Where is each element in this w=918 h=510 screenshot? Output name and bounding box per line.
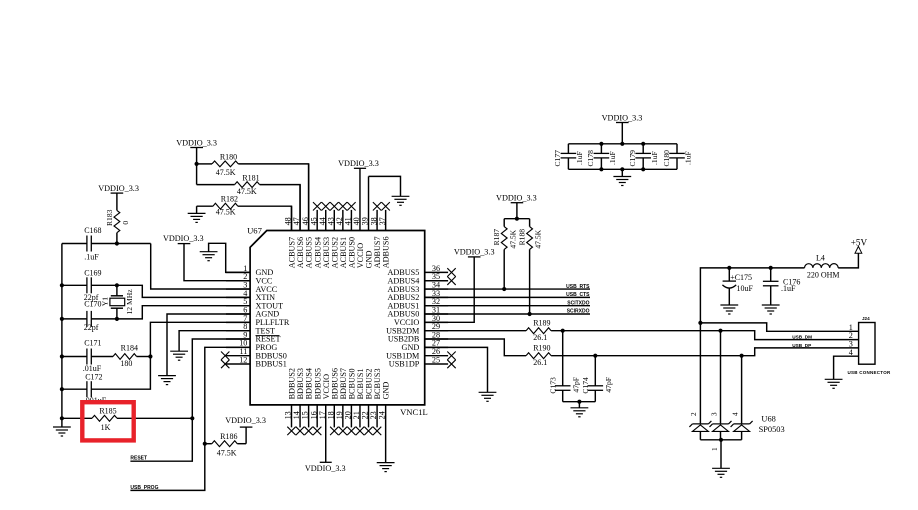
U67 pin 17 VCCIO [318, 374, 331, 462]
svg-text:26.1: 26.1 [533, 333, 547, 342]
ground at TEST [170, 351, 188, 360]
U67 pin 41 ACBUS0 [344, 202, 357, 268]
svg-text:GND: GND [382, 382, 391, 400]
capacitor C175 10uF polarized [722, 268, 753, 305]
svg-text:R182: R182 [221, 194, 238, 203]
svg-text:3: 3 [710, 412, 718, 416]
wire pin1 GND [209, 243, 251, 272]
wire R180 to pin46 [238, 164, 308, 231]
svg-text:USB_CTS: USB_CTS [566, 292, 590, 298]
power VDDIO_3.3 above R180/R181 [176, 139, 217, 148]
ground at C173/C174 [571, 408, 589, 417]
U67 pin 47 ACBUS6 [292, 185, 305, 269]
U67 pin 35 ADBUS4 [387, 272, 455, 285]
U67 pin 38 ADBUS7 [369, 202, 382, 268]
node PROG / R186 [203, 442, 207, 446]
wire net USB_CTS [425, 296, 590, 298]
node cap bank rail junction [641, 142, 645, 146]
power VDDIO_3.3 above R183 [98, 184, 139, 193]
power +5V arrow [855, 246, 862, 253]
svg-text:25: 25 [432, 355, 440, 364]
resistor R185 1K [62, 407, 192, 433]
resistor R180 47.5K [197, 153, 239, 177]
wire pin27 GND to ground [425, 347, 488, 392]
wire net SCITXDO [425, 305, 590, 307]
svg-text:USB1DP: USB1DP [389, 360, 420, 369]
svg-text:C169: C169 [84, 269, 101, 278]
node R184 / PLLFLTR [148, 354, 152, 358]
svg-text:USB_DM: USB_DM [792, 335, 812, 340]
svg-text:47.5K: 47.5K [534, 229, 543, 248]
wire pin29 USB2DM to R189 [425, 330, 526, 332]
wire crystal top to pin4 XTIN [117, 285, 250, 297]
svg-text:U68: U68 [761, 414, 775, 423]
U67 pin 45 ACBUS4 [309, 202, 322, 268]
svg-text:2: 2 [690, 412, 698, 416]
U67 pin 9 RESET [226, 330, 281, 343]
svg-text:VDDIO_3.3: VDDIO_3.3 [338, 159, 379, 168]
resistor R187 47.5K [492, 219, 517, 289]
wire C173/C174 ground rail [563, 401, 596, 403]
wire pin8 TEST to ground [179, 331, 250, 352]
svg-text:VDDIO_3.3: VDDIO_3.3 [305, 464, 346, 473]
U67 pin 36 ADBUS5 [387, 264, 455, 277]
svg-text:47.5K: 47.5K [237, 187, 257, 196]
TVS diode U68 pin 3 [710, 412, 732, 440]
capacitor C173 47pF [549, 331, 581, 402]
svg-text:R184: R184 [121, 344, 138, 353]
TVS diode U68 pin 4 [731, 412, 753, 440]
svg-text:J24: J24 [862, 316, 870, 321]
wire C168 node to pin3 AVCC [151, 244, 250, 290]
svg-text:R187: R187 [492, 229, 501, 246]
svg-text:USB CONNECTOR: USB CONNECTOR [848, 370, 891, 375]
svg-text:R181: R181 [242, 173, 259, 182]
svg-text:L4: L4 [816, 253, 825, 262]
svg-text:VDDIO_3.3: VDDIO_3.3 [176, 139, 217, 148]
wire pin2 VCC to power [184, 244, 250, 281]
capacitor C176 .1uF [763, 268, 800, 305]
wire +5V rail / VBUS vertical [700, 268, 804, 424]
IC U67 VNC1L body [250, 231, 425, 405]
svg-text:4: 4 [731, 412, 739, 416]
U67 pin 19 BDBUS7 [335, 368, 348, 435]
svg-text:SCITXDO: SCITXDO [567, 300, 589, 306]
power VDDIO_3.3 at pin30 VCCIO [454, 248, 495, 257]
U67 pin 37 ADBUS6 [378, 202, 391, 268]
U67 pin 21 BCBUS1 [352, 368, 365, 435]
svg-text:U67: U67 [247, 226, 263, 236]
U67 pin 5 XTOUT [226, 297, 283, 310]
wire USB_DM to U68 pin3 [720, 331, 722, 424]
svg-text:RESET: RESET [130, 456, 147, 462]
wire VBUS to J24 pin1 [700, 323, 858, 331]
svg-text:47.5K: 47.5K [216, 168, 236, 177]
U67 pin 24 GND [378, 382, 391, 463]
svg-text:47.5K: 47.5K [217, 448, 237, 457]
U67 pin 15 BDBUS4 [301, 368, 314, 435]
wire R190 to USB_DP / J24 pin3 [551, 348, 859, 356]
capacitor C170 22pf [62, 300, 117, 333]
svg-text:0: 0 [121, 221, 130, 225]
U67 pin 22 BCBUS2 [361, 368, 374, 435]
U67 pin 13 BDBUS2 [284, 368, 297, 435]
power VDDIO_3.3 at pin2 [163, 234, 204, 244]
wire R181 to pin47 [260, 185, 300, 231]
U67 pin 28 USB2DB [388, 330, 448, 343]
capacitor C168 .1uF [62, 226, 151, 261]
U67 pin 11 BDBUS0 [221, 347, 287, 360]
svg-text:47.5K: 47.5K [508, 229, 517, 248]
capacitor C179 .1uF [628, 144, 659, 170]
svg-text:USB_PROG: USB_PROG [130, 485, 158, 491]
U67 pin 46 ACBUS5 [301, 164, 314, 268]
wire R189 to USB_DM / J24 pin2 [551, 331, 859, 340]
U67 pin 20 BCBUS0 [344, 368, 357, 435]
U67 pin 14 BDBUS3 [292, 368, 305, 435]
svg-text:180: 180 [120, 359, 132, 368]
U67 pin 8 TEST [226, 322, 275, 335]
ground at pin39 [392, 196, 410, 205]
svg-text:C173: C173 [549, 377, 558, 394]
U67 pin 48 ACBUS7 [284, 206, 297, 268]
svg-text:VDDIO_3.3: VDDIO_3.3 [163, 234, 204, 243]
wire pin39 GND to ground [369, 176, 401, 196]
node cap bank rail junction [599, 142, 603, 146]
U67 pin 18 BDBUS6 [326, 368, 339, 435]
ground at AGND [158, 376, 176, 385]
ground at pin27 [479, 392, 497, 401]
svg-text:47.5K: 47.5K [216, 207, 236, 216]
svg-text:C170: C170 [84, 300, 101, 309]
svg-text:VDDIO_3.3: VDDIO_3.3 [225, 416, 266, 425]
power VDDIO_3.3 at U67 pin 17 [305, 462, 346, 473]
svg-text:R183: R183 [105, 209, 114, 226]
ground at C176 [762, 305, 780, 314]
wire U68 pin1 to ground [711, 440, 721, 469]
capacitor C171 .01uF [62, 339, 113, 374]
wire pin7 PLLFLTR to R184/C172 [91, 322, 250, 389]
wire J24 pin4 to ground [834, 356, 859, 379]
svg-text:C174: C174 [581, 377, 590, 394]
resistor R184 180 [113, 344, 150, 368]
capacitor C180 .1uF [662, 144, 693, 170]
U67 pin 7 PLLFLTR [226, 314, 290, 327]
svg-text:24: 24 [378, 411, 387, 419]
ground at pin1 [200, 252, 218, 261]
svg-text:VNC1L: VNC1L [400, 407, 428, 417]
wire cap bank rails [568, 143, 677, 145]
wire crystal bottom to pin5 XTOUT [117, 306, 250, 319]
node crystal top [115, 283, 119, 287]
ground at U67 pin 24 [377, 463, 395, 472]
svg-text:R186: R186 [220, 432, 237, 441]
node cap bank rail junction [620, 142, 624, 146]
svg-text:47pF: 47pF [604, 377, 613, 393]
U67 pin 32 ADBUS1 [387, 297, 448, 310]
svg-text:SCIRXDO: SCIRXDO [567, 309, 590, 315]
svg-text:R188: R188 [518, 229, 527, 246]
svg-text:C168: C168 [84, 226, 101, 235]
node R185 / RESET [190, 416, 194, 420]
resistor R182 47.5K [197, 194, 238, 216]
U67 pin 3 AVCC [226, 280, 278, 293]
U67 pin 27 GND [402, 339, 449, 352]
inductor L4 220 OHM [805, 264, 839, 268]
wire R187/R188 tee [516, 203, 518, 219]
U67 pin 2 VCC [226, 272, 273, 285]
svg-text:BDBUS1: BDBUS1 [256, 360, 287, 369]
power VDDIO_3.3 at cap bank [602, 113, 643, 122]
wire pin6 AGND to ground [167, 314, 250, 376]
svg-text:USB_DP: USB_DP [792, 343, 811, 348]
svg-text:R185: R185 [99, 407, 116, 416]
svg-text:C171: C171 [84, 339, 101, 348]
svg-text:C177: C177 [553, 150, 562, 167]
U67 pin 16 BDBUS5 [309, 368, 322, 435]
resistor R183 0 ohm [105, 193, 130, 243]
svg-text:C180: C180 [662, 150, 671, 167]
svg-text:1K: 1K [101, 423, 111, 432]
node C168/R183 junction [115, 241, 119, 245]
ground at C175 [720, 305, 738, 314]
capacitor C178 .1uF [586, 144, 617, 170]
crystal Y1 12 MHz [100, 285, 134, 319]
svg-text:USB_RTS: USB_RTS [566, 284, 590, 290]
connector J24 [859, 323, 875, 365]
U67 pin 12 BDBUS1 [221, 355, 287, 368]
capacitor C172 .001uF [62, 372, 107, 405]
svg-text:220 OHM: 220 OHM [807, 271, 840, 280]
svg-text:ADBUS6: ADBUS6 [382, 236, 391, 268]
svg-text:Y1: Y1 [100, 297, 109, 306]
U67 pin 26 USB1DM [386, 347, 456, 360]
resistor R188 47.5K [518, 219, 543, 314]
capacitor C169 22pf [62, 269, 117, 303]
svg-text:VDDIO_3.3: VDDIO_3.3 [454, 248, 495, 257]
U67 pin 39 GND [361, 176, 374, 268]
power VDDIO_3.3 at pin40 VCCIO [338, 159, 379, 168]
wire pin30 VCCIO to power [425, 257, 475, 322]
svg-text:.1uF: .1uF [84, 252, 99, 261]
svg-text:22pf: 22pf [84, 323, 99, 332]
svg-text:R180: R180 [220, 153, 237, 162]
svg-text:12 MHz: 12 MHz [125, 289, 134, 315]
U67 pin 10 PROG [226, 339, 277, 352]
svg-text:12: 12 [239, 355, 247, 364]
capacitor C177 .1uF [553, 144, 584, 170]
wire left decoupling bus [61, 244, 63, 428]
svg-text:4: 4 [849, 348, 853, 357]
resistor R190 26.1 [526, 344, 551, 367]
U67 pin 29 USB2DM [386, 322, 448, 335]
svg-text:37: 37 [378, 217, 387, 225]
svg-text:1: 1 [711, 447, 719, 451]
U67 pin 33 ADBUS2 [387, 289, 448, 302]
svg-text:R190: R190 [533, 344, 550, 353]
resistor R186 47.5K [205, 427, 246, 457]
U67 pin 23 BCBUS3 [369, 368, 382, 435]
wire net USB_RTS [425, 288, 590, 290]
U67 pin 31 ADBUS0 [387, 305, 448, 318]
svg-text:.1uF: .1uF [650, 151, 659, 165]
wire net SCIRXDO [425, 313, 590, 315]
wire USB_DP to U68 pin4 [741, 356, 743, 424]
ground at J24 shell [825, 379, 843, 388]
U67 pin 44 ACBUS3 [318, 202, 331, 268]
power VDDIO_3.3 above R186 [225, 416, 266, 427]
svg-text:.1uF: .1uF [575, 151, 584, 165]
resistor R181 47.5K [197, 173, 260, 196]
wire pin10 PROG / USB_PROG net [130, 347, 250, 490]
U67 pin 4 XTIN [226, 289, 275, 302]
highlight box around R185 [82, 402, 133, 440]
ground at left bus bottom [53, 427, 71, 436]
U67 pin 42 ACBUS1 [335, 202, 348, 268]
wire R182 to pin48 [238, 206, 292, 230]
capacitor C174 47pF [581, 356, 613, 402]
resistor R189 26.1 [526, 319, 551, 342]
ground at R182 [188, 213, 206, 222]
svg-text:.1uF: .1uF [684, 151, 693, 165]
wire VDDIO stem to R180/R181 [196, 148, 198, 185]
U67 pin 40 VCCIO [352, 168, 365, 268]
svg-text:VDDIO_3.3: VDDIO_3.3 [496, 193, 537, 202]
svg-text:+5V: +5V [851, 238, 868, 248]
node crystal bottom [115, 317, 119, 321]
svg-text:26.1: 26.1 [533, 358, 547, 367]
svg-text:.1uF: .1uF [608, 151, 617, 165]
TVS diode U68 pin 2 [689, 412, 711, 440]
svg-text:+C175: +C175 [730, 273, 752, 282]
U67 pin 43 ACBUS2 [326, 202, 339, 268]
U67 pin 1 GND [226, 264, 273, 277]
ground at cap bank [621, 169, 623, 176]
svg-text:10uF: 10uF [737, 284, 754, 293]
svg-text:VDDIO_3.3: VDDIO_3.3 [602, 113, 643, 122]
wire U68 common anode rail [700, 439, 741, 441]
wire L4 to +5V [838, 253, 858, 268]
U67 pin 6 AGND [226, 305, 279, 318]
svg-text:R189: R189 [533, 319, 550, 328]
svg-text:.1uF: .1uF [781, 284, 796, 293]
svg-text:VDDIO_3.3: VDDIO_3.3 [98, 184, 139, 193]
power VDDIO_3.3 above R187/R188 [496, 193, 537, 202]
wire pin28 USB2DB to R190 [425, 339, 526, 356]
svg-text:C178: C178 [586, 150, 595, 167]
svg-text:C179: C179 [628, 150, 637, 167]
wire pin9 RESET net [130, 339, 250, 461]
U67 pin 34 ADBUS3 [387, 280, 448, 293]
svg-text:SP0503: SP0503 [759, 425, 785, 434]
U67 pin 30 VCCIO [394, 314, 448, 327]
ground at U68 [712, 468, 730, 477]
svg-text:C172: C172 [85, 372, 102, 381]
svg-text:47pF: 47pF [572, 377, 581, 393]
U67 pin 25 USB1DP [389, 355, 456, 368]
